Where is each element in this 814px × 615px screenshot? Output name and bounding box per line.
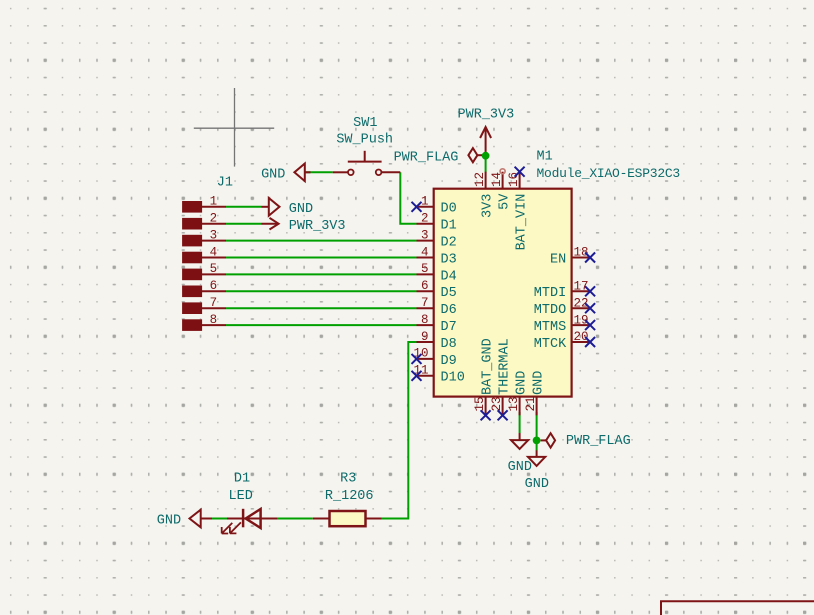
svg-text:7: 7 <box>421 296 429 310</box>
svg-text:4: 4 <box>210 245 218 259</box>
svg-text:GND: GND <box>525 477 549 492</box>
svg-text:PWR_FLAG: PWR_FLAG <box>394 150 459 165</box>
svg-text:1: 1 <box>210 195 218 209</box>
svg-text:2: 2 <box>421 212 429 226</box>
svg-text:SW1: SW1 <box>353 116 377 131</box>
svg-text:Module_XIAO-ESP32C3: Module_XIAO-ESP32C3 <box>537 166 680 181</box>
svg-text:R3: R3 <box>340 471 356 486</box>
svg-text:EN: EN <box>550 252 566 267</box>
svg-text:D4: D4 <box>441 269 457 284</box>
svg-text:MTCK: MTCK <box>534 337 567 352</box>
svg-text:D3: D3 <box>441 252 457 267</box>
svg-text:1: 1 <box>421 195 429 209</box>
svg-text:J1: J1 <box>217 176 233 191</box>
svg-text:BAT_GND: BAT_GND <box>481 338 496 395</box>
svg-text:SW_Push: SW_Push <box>336 133 393 148</box>
svg-text:THERMAL: THERMAL <box>498 338 513 395</box>
svg-text:8: 8 <box>210 313 218 327</box>
svg-text:PWR_3V3: PWR_3V3 <box>289 219 346 234</box>
svg-text:6: 6 <box>210 279 218 293</box>
svg-text:4: 4 <box>421 245 429 259</box>
svg-text:3V3: 3V3 <box>481 194 496 218</box>
svg-text:PWR_3V3: PWR_3V3 <box>458 108 515 123</box>
svg-text:D8: D8 <box>441 337 457 352</box>
svg-text:13: 13 <box>507 396 521 411</box>
svg-text:LED: LED <box>229 489 253 504</box>
svg-text:12: 12 <box>473 172 487 187</box>
svg-text:GND: GND <box>508 460 532 475</box>
svg-text:7: 7 <box>210 296 218 310</box>
svg-text:6: 6 <box>421 279 429 293</box>
svg-text:GND: GND <box>515 371 530 395</box>
svg-text:D9: D9 <box>441 354 457 369</box>
svg-text:15: 15 <box>473 396 487 411</box>
svg-text:16: 16 <box>507 172 521 187</box>
svg-text:MTDI: MTDI <box>534 286 566 301</box>
svg-text:D1: D1 <box>234 471 250 486</box>
svg-text:2: 2 <box>210 212 218 226</box>
svg-text:D6: D6 <box>441 303 457 318</box>
svg-text:D2: D2 <box>441 236 457 251</box>
svg-text:D5: D5 <box>441 286 457 301</box>
svg-text:5V: 5V <box>498 193 513 210</box>
svg-text:R_1206: R_1206 <box>325 489 374 504</box>
svg-text:D0: D0 <box>441 202 457 217</box>
svg-text:5: 5 <box>421 262 429 276</box>
svg-text:D10: D10 <box>441 371 465 386</box>
svg-text:MTMS: MTMS <box>534 320 566 335</box>
svg-text:GND: GND <box>261 168 285 183</box>
svg-text:PWR_FLAG: PWR_FLAG <box>566 434 631 449</box>
svg-text:BAT_VIN: BAT_VIN <box>515 194 530 251</box>
svg-text:3: 3 <box>210 228 218 242</box>
svg-text:D1: D1 <box>441 219 457 234</box>
svg-text:21: 21 <box>524 396 538 411</box>
svg-text:23: 23 <box>490 396 504 411</box>
svg-text:GND: GND <box>289 202 313 217</box>
svg-text:9: 9 <box>421 330 429 344</box>
svg-text:3: 3 <box>421 228 429 242</box>
svg-text:MTDO: MTDO <box>534 303 566 318</box>
svg-text:GND: GND <box>532 371 547 395</box>
svg-text:M1: M1 <box>537 150 553 165</box>
svg-text:5: 5 <box>210 262 218 276</box>
svg-text:GND: GND <box>157 514 181 529</box>
svg-text:8: 8 <box>421 313 429 327</box>
svg-text:D7: D7 <box>441 320 457 335</box>
